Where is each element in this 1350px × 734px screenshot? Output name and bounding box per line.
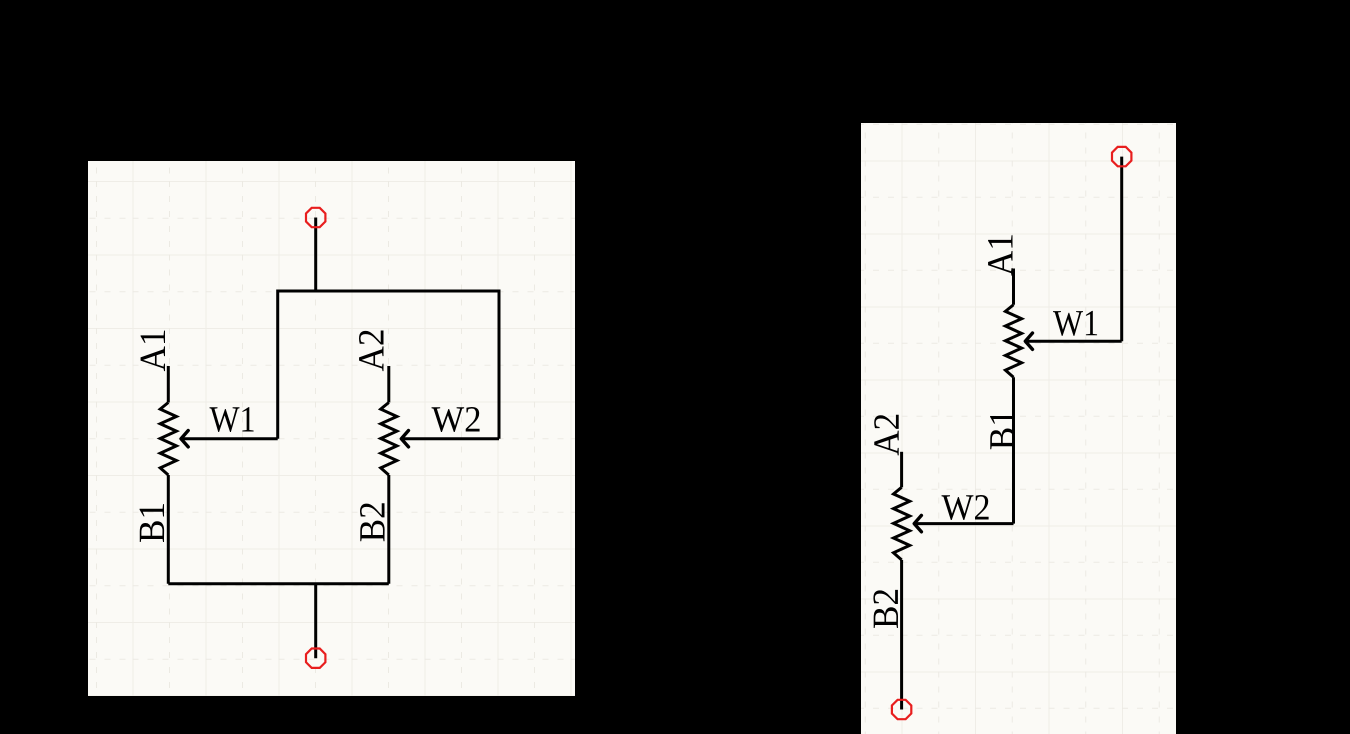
label W2 (right panel): [942, 495, 989, 520]
left schematic panel background: [88, 161, 575, 696]
label A1 (left panel, rotated): [141, 331, 165, 372]
wire: R2 pin B2 down to bottom terminal (right): [900, 560, 903, 710]
wire: left vertical to W1: [276, 290, 279, 439]
potentiometer R2 body: [381, 403, 397, 476]
terminal node (left top, red octagon): [306, 208, 325, 227]
wire: right top terminal lead: [1120, 157, 1123, 342]
wire W1 wiper lead: [181, 437, 278, 440]
label B2 (left panel, rotated): [360, 503, 385, 541]
right schematic panel background: [861, 123, 1176, 734]
terminal node (right bottom, red octagon): [892, 700, 911, 719]
wire: left bottom bus: [168, 582, 388, 585]
wire W1 wiper lead (right): [1025, 340, 1121, 343]
wire W2 wiper lead: [401, 437, 499, 440]
wire W2 wiper lead (right): [914, 522, 1013, 525]
label B1 (left panel, rotated): [140, 504, 165, 542]
wire: left top terminal lead: [314, 218, 317, 292]
potentiometer R1 body: [160, 403, 176, 476]
arrowhead of wiper W2 (right): [914, 515, 921, 531]
potentiometer R2 top lead (pin A2): [387, 366, 390, 403]
wire: right vertical to W2: [498, 290, 501, 439]
label A1 (right panel, rotated): [988, 235, 1012, 276]
potentiometer R1 bottom lead (pin B1): [167, 475, 170, 584]
arrowhead of wiper W2 (left): [401, 431, 408, 447]
arrowhead of wiper W1 (right): [1025, 333, 1032, 349]
potentiometer R1 top lead (pin A1): [167, 366, 170, 403]
potentiometer R1 top lead (pin A1, right): [1012, 269, 1015, 305]
wire: left top bus: [278, 290, 499, 293]
label W2 (left panel): [432, 407, 480, 432]
terminal node (right top, red octagon): [1112, 147, 1131, 166]
potentiometer R2 top lead (pin A2, right): [900, 452, 903, 488]
potentiometer R2 bottom lead (pin B2): [387, 475, 390, 584]
terminal node (left bottom, red octagon): [306, 649, 325, 668]
label A2 (right panel, rotated): [874, 415, 898, 456]
label B1 (right panel, rotated): [990, 411, 1015, 449]
label W1 (right panel): [1053, 311, 1097, 336]
wire: R1 pin B1 down to W2 (right): [1012, 377, 1015, 523]
potentiometer R2 body (right): [894, 487, 910, 559]
label A2 (left panel, rotated): [359, 330, 383, 371]
wire: left bottom terminal lead: [314, 584, 317, 659]
label B2 (right panel, rotated): [873, 590, 898, 628]
arrowhead of wiper W1 (left): [181, 431, 188, 447]
label W1 (left panel): [210, 407, 254, 432]
potentiometer R1 body (right): [1005, 305, 1021, 378]
